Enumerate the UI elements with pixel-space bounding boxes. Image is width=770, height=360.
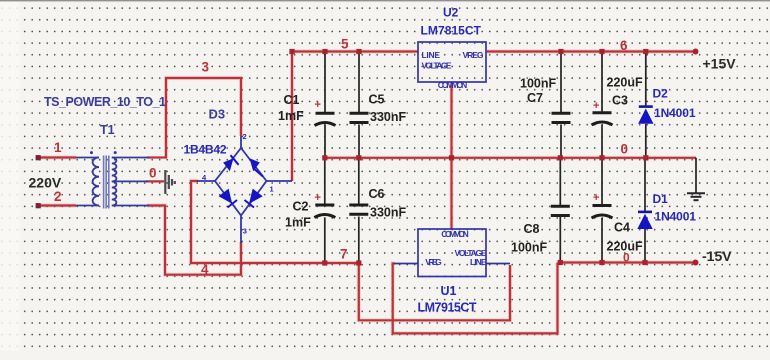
svg-text:4: 4 [201, 262, 209, 277]
svg-text:-15V: -15V [702, 248, 732, 264]
terminal -15V [693, 260, 699, 266]
svg-text:1: 1 [54, 140, 62, 155]
svg-text:3: 3 [243, 227, 247, 236]
lead C7 top and bottom [560, 52, 562, 158]
svg-text:0: 0 [623, 251, 630, 265]
lead C8 top and bottom [559, 158, 561, 263]
svg-text:1mF: 1mF [278, 109, 304, 123]
wire net 7 loop to U1 LINE pin [359, 263, 510, 320]
wire net 3 top horizontal [166, 78, 241, 158]
op-amp style box U1 LM7915CT [418, 229, 487, 277]
wire secondary top lead [147, 156, 167, 158]
wire net 6 rail [486, 50, 696, 52]
svg-text:T1: T1 [100, 123, 115, 137]
svg-text:C5: C5 [369, 93, 385, 107]
wire U1 VREG output loop to -15V rail [393, 263, 558, 334]
svg-text:LM7915CT: LM7915CT [418, 301, 477, 315]
wire net 4 secondary bottom to bridge bottom [147, 206, 241, 275]
lead D1 top and bottom [644, 158, 646, 263]
svg-text:D2: D2 [653, 87, 669, 101]
svg-text:1N4001: 1N4001 [655, 210, 697, 224]
svg-text:TS_POWER_10_TO_1: TS_POWER_10_TO_1 [44, 95, 166, 109]
svg-text:C1: C1 [284, 93, 300, 107]
op-amp style box U2 LM7815CT [418, 42, 486, 90]
svg-text:+: + [315, 99, 321, 111]
svg-text:1B4B42: 1B4B42 [184, 143, 227, 157]
svg-text:U1: U1 [441, 284, 457, 298]
lead C1 top and bottom [324, 52, 326, 158]
wire bridge output riser and net 5 rail [292, 52, 418, 182]
svg-text:LINE: LINE [470, 257, 487, 267]
top border frame line [0, 0, 770, 1]
capacitor C7 [552, 113, 571, 122]
diode D2 [638, 105, 653, 124]
svg-text:0: 0 [149, 166, 157, 181]
bridge diode bottom-right [245, 189, 263, 208]
transformer phase dots [90, 151, 117, 154]
svg-text:5: 5 [341, 37, 349, 52]
capacitor C5 [350, 113, 369, 122]
svg-text:3: 3 [202, 60, 210, 75]
capacitor C6 [349, 205, 368, 214]
svg-text:330nF: 330nF [370, 206, 406, 220]
capacitor C8 [551, 206, 570, 215]
junction dots rail -15V [558, 260, 648, 265]
svg-text:D1: D1 [653, 192, 669, 206]
wire net 0 mid rail [325, 157, 696, 159]
bridge diode top-right [250, 158, 264, 176]
capacitor C4 [592, 206, 613, 219]
svg-text:100nF: 100nF [520, 77, 556, 91]
wire primary pin 1 [38, 156, 76, 158]
svg-text:6: 6 [620, 38, 628, 53]
wire net 7 bridge left to rail [191, 181, 359, 263]
wire U2 common to rail 0 [450, 82, 452, 158]
transformer T1 core [104, 156, 109, 209]
svg-text:U2: U2 [443, 6, 459, 20]
svg-text:7: 7 [340, 247, 348, 262]
svg-text:2: 2 [243, 132, 247, 141]
svg-text:VOLTAGE: VOLTAGE [422, 61, 452, 71]
junction dots rail 5 [289, 49, 361, 54]
svg-text:D3: D3 [209, 107, 226, 122]
wire U1 LINE pin stub [486, 263, 510, 265]
transformer T1 [76, 158, 149, 206]
svg-text:LINE: LINE [422, 50, 441, 60]
wire primary pin 2 [38, 204, 76, 206]
lead C5 top and bottom [358, 52, 360, 158]
capacitor C2 [314, 205, 335, 218]
svg-text:+: + [593, 192, 599, 204]
svg-text:C3: C3 [612, 94, 628, 108]
wire center tap to ground [146, 180, 164, 182]
svg-text:LM7815CT: LM7815CT [421, 24, 482, 38]
capacitor C1 [315, 113, 336, 125]
svg-text:+15V: +15V [703, 56, 737, 72]
svg-text:C8: C8 [524, 222, 540, 236]
lead C4 top and bottom [601, 158, 603, 263]
svg-text:1: 1 [270, 185, 274, 194]
svg-text:1mF: 1mF [285, 216, 311, 230]
bridge rectifier D3 diamond [197, 136, 292, 243]
lead C2 top and bottom [324, 158, 326, 263]
wire U1 VREG pin stub [394, 263, 418, 265]
svg-text:+: + [315, 192, 321, 204]
svg-text:VREG: VREG [463, 50, 484, 60]
ground stub right [695, 158, 697, 193]
svg-text:COMMON: COMMON [438, 80, 468, 90]
wire U1 common to rail 0 [450, 158, 452, 229]
ground (right, net 0) [687, 193, 705, 200]
bridge diode top-left [223, 155, 238, 171]
terminal 220V pin 1 [36, 155, 41, 160]
svg-text:0: 0 [621, 142, 629, 157]
svg-text:C6: C6 [369, 187, 385, 201]
capacitor C3 [592, 113, 613, 125]
svg-text:2: 2 [54, 189, 62, 204]
svg-text:1N4001: 1N4001 [654, 106, 696, 120]
junction dots rail 0 [322, 155, 648, 160]
svg-text:C2: C2 [293, 200, 309, 214]
ground (transformer center tap, sideways) [165, 170, 175, 194]
diode D1 [637, 211, 652, 229]
lead D2 top and bottom [645, 52, 647, 158]
bridge diode bottom-left [219, 189, 237, 208]
wire -15V rail [558, 261, 696, 263]
svg-text:+: + [593, 100, 599, 112]
svg-text:C7: C7 [527, 91, 543, 105]
svg-text:VREG: VREG [425, 257, 442, 267]
lead C3 top and bottom [601, 52, 603, 158]
junction dots net 7 [322, 260, 361, 265]
terminal 220V pin 2 [36, 203, 41, 208]
svg-text:C4: C4 [614, 221, 630, 235]
svg-text:100nF: 100nF [511, 241, 547, 255]
lead C6 top and bottom [358, 158, 360, 263]
svg-text:COMMON: COMMON [441, 229, 469, 239]
svg-text:330nF: 330nF [370, 110, 406, 124]
junction dots rail 6 [558, 49, 648, 54]
svg-text:220uF: 220uF [607, 76, 643, 90]
terminal +15V [693, 49, 699, 55]
